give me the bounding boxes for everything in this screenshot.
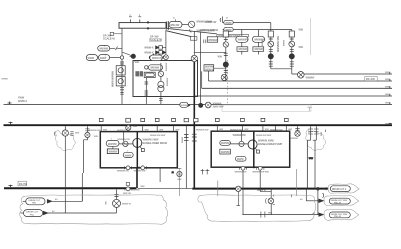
- breaker dot left: [131, 54, 135, 58]
- feeder line F2: [209, 80, 393, 82]
- PT drop x297: [297, 126, 299, 131]
- cloud outline bottom left: [20, 195, 168, 225]
- svg-text:WWWW-XW: WWWW-XW: [117, 130, 130, 132]
- drop D4 to box L: [155, 118, 159, 131]
- arrow feed 2b: [319, 199, 324, 202]
- cable riser x315: [314, 140, 316, 188]
- svg-text:WW: WW: [321, 131, 323, 136]
- breaker column C circle: [223, 42, 228, 47]
- cable termination left circle: [62, 130, 68, 136]
- svg-text:WW: WW: [385, 79, 389, 81]
- pothead A column: [310, 126, 312, 140]
- svg-text:WWWW XW WW: WWWW XW WW: [252, 171, 268, 173]
- H2 fuse rect above b: [126, 118, 131, 122]
- wire K1 drop: [193, 31, 195, 55]
- stadium label LB1: [86, 55, 97, 61]
- svg-text:WWWW-XW: WWWW-XW: [230, 129, 243, 131]
- motor ML aux square: [141, 149, 144, 152]
- svg-text:WWWW: WWWW: [132, 190, 140, 192]
- tick small x291: [291, 194, 293, 197]
- tick x122 y92: [120, 92, 123, 94]
- dark relay pair: [135, 71, 139, 76]
- feeder stub ticks: [177, 169, 181, 180]
- node H3 left tick: [9, 185, 13, 188]
- svg-text:DRUM CUT: DRUM CUT: [26, 212, 38, 214]
- box R top drop: [241, 131, 243, 141]
- feeder line F4: [194, 95, 392, 97]
- drop D3 to box L: [141, 118, 145, 131]
- svg-text:11: 11: [173, 18, 176, 20]
- arrow feed 2: [43, 211, 48, 214]
- svg-text:WWWW XW: WWWW XW: [134, 171, 146, 173]
- arrow box row 2: [159, 51, 163, 55]
- svg-text:WWW-XW: WWW-XW: [152, 58, 164, 60]
- transformer T2 winding 1: [158, 81, 164, 87]
- pothead tick right: [325, 130, 327, 133]
- svg-text:WWW: WWW: [100, 58, 107, 60]
- svg-text:WWW: WWW: [225, 23, 232, 25]
- arrow feed 3: [319, 213, 324, 216]
- drop D5 to box L: [172, 118, 176, 131]
- svg-text:WWW-XW WW: WWW-XW WW: [256, 135, 272, 137]
- motor thick drop L: [136, 132, 138, 168]
- svg-text:WWW: WWW: [182, 136, 184, 143]
- tick pair x146 b: [145, 91, 149, 95]
- dashed control line x227: [226, 60, 228, 104]
- below box L drop x160: [159, 168, 161, 182]
- bus H3 left: [4, 187, 136, 189]
- drum cut stadium 2: [24, 210, 43, 217]
- svg-text:DF-XW: DF-XW: [366, 77, 375, 81]
- wire drum line 2: [48, 212, 117, 214]
- svg-text:DRUM CUT: DRUM CUT: [29, 200, 41, 202]
- riser tie x84 top: [81, 188, 83, 201]
- H3 bus corner symbol: [126, 182, 129, 185]
- label DF-XW box right: [365, 76, 377, 80]
- node LB junction circle: [120, 56, 123, 59]
- cable riser x83: [82, 140, 83, 202]
- svg-text:WW: WW: [133, 126, 138, 128]
- contactor stack 2 stadium: [252, 36, 264, 42]
- bus H2 main: [4, 124, 393, 126]
- ground ticks: [115, 195, 119, 197]
- cable riser x307: [307, 140, 316, 188]
- tick pair x146 a: [145, 82, 149, 84]
- recloser tick: [273, 195, 275, 205]
- stadium label LA: [98, 46, 110, 51]
- busbar 4160V: [119, 23, 166, 29]
- svg-text:WW: WW: [299, 29, 304, 31]
- contactor stack 2 rect: [253, 47, 264, 52]
- svg-text:WWW: WWW: [225, 30, 232, 32]
- svg-text:WWWW: WWWW: [99, 49, 109, 51]
- svg-text:WWW XW: WWW XW: [205, 21, 217, 24]
- box L stadium label 1: [106, 140, 119, 146]
- wire F2 corner: [208, 71, 210, 81]
- pothead A crossbars: [308, 129, 313, 134]
- breaker column C ticks: [224, 40, 228, 56]
- cloud stub right2: [295, 169, 297, 196]
- svg-text:WWW-X: WWW-X: [18, 100, 28, 103]
- spare bracket: [307, 107, 312, 111]
- arrow label row 1: [156, 46, 159, 49]
- contactor stack 2 stub: [257, 30, 259, 37]
- svg-text:WWWW: WWWW: [108, 144, 118, 146]
- wire inner drop x146: [145, 78, 147, 105]
- meter M2 on F1: [298, 72, 305, 79]
- svg-text:WW: WW: [385, 94, 389, 96]
- aux jog to riser: [84, 138, 88, 140]
- label mid box: [150, 38, 162, 41]
- aux circle on xfmr drop: [158, 71, 163, 76]
- svg-text:WWW W: WWW W: [257, 190, 267, 192]
- svg-text:WWWW: WWWW: [166, 62, 168, 71]
- svg-text:WW-XW: WW-XW: [170, 24, 180, 27]
- K2 leader: [214, 67, 226, 69]
- feeder fuse rect: [194, 118, 198, 121]
- svg-text:RAISE/LOWER DRUM: RAISE/LOWER DRUM: [143, 142, 167, 145]
- stadium label LB2: [98, 55, 109, 61]
- recloser bracket: [265, 198, 268, 203]
- node F2 right tick: [389, 79, 391, 81]
- svg-text:DRUM CUT 2: DRUM CUT 2: [332, 189, 347, 191]
- svg-text:WW: WW: [244, 129, 248, 131]
- svg-text:WWW-XW WW: WWW-XW WW: [150, 135, 166, 137]
- busbar end cap: [167, 21, 169, 30]
- ground device wire low: [116, 207, 118, 213]
- below box R drop a long: [242, 170, 244, 215]
- node L1 start tick: [220, 17, 222, 23]
- svg-text:WWWW: WWWW: [254, 49, 264, 51]
- meter M1 circle: [188, 21, 194, 27]
- starter S2 circle: [118, 79, 123, 84]
- PT ticks x297: [295, 128, 299, 130]
- drop D8 to box R: [261, 118, 265, 131]
- starter cluster rect: [144, 72, 155, 77]
- busbar tick 1: [129, 17, 132, 23]
- pothead cloud right: [306, 130, 326, 151]
- bus H1 480V: [4, 103, 393, 105]
- svg-text:WWW: WWW: [88, 58, 95, 60]
- node H2 left tick: [9, 122, 13, 125]
- feeder line F3: [202, 87, 392, 89]
- cloud outline bottom right: [198, 195, 316, 222]
- upper box stadium on top edge: [150, 55, 163, 61]
- svg-text:WW: WW: [219, 129, 223, 131]
- bus H3 right: [192, 188, 328, 190]
- svg-text:WWWW-XW: WWWW-XW: [196, 129, 209, 131]
- svg-text:WW: WW: [299, 47, 304, 49]
- svg-text:WWWW-XW: WWWW-XW: [233, 135, 247, 137]
- svg-text:WW: WW: [159, 129, 163, 131]
- svg-text:XWW WW: XWW WW: [213, 107, 225, 109]
- drum cut 2 stadium top: [330, 186, 350, 192]
- svg-text:WWW-X: WWW-X: [144, 52, 154, 55]
- H2 aux breaker circle b: [126, 125, 131, 130]
- ground device x117 wire: [116, 190, 118, 200]
- wire row 1: [162, 47, 166, 49]
- riser x317: [317, 189, 319, 215]
- edge breaker Rb: [258, 166, 262, 170]
- svg-text:WWW: WWW: [237, 159, 244, 161]
- svg-text:WWW: WWW: [283, 39, 285, 46]
- drum cut stadium 1: [26, 198, 45, 205]
- contactor stack 1 rect: [237, 47, 248, 52]
- svg-text:WWWW: WWWW: [205, 67, 215, 69]
- upper unit box: [133, 61, 198, 97]
- stadium 2 left tick: [20, 212, 23, 214]
- wire drum line 3: [242, 214, 318, 216]
- node H1 right tick: [389, 102, 391, 104]
- future vertical faint: [310, 18, 312, 55]
- riser x306: [305, 189, 307, 201]
- breaker column C drop: [225, 37, 227, 81]
- svg-text:PNL-W: PNL-W: [334, 216, 342, 218]
- svg-text:WW: WW: [265, 129, 269, 131]
- tick pair below bar: [204, 40, 206, 44]
- aux drop x87: [86, 126, 88, 132]
- stadium U2 inside: [148, 65, 162, 70]
- svg-text:WW: WW: [135, 62, 140, 64]
- line L2 4160 feeder: [223, 29, 292, 31]
- svg-text:WW XW: WW XW: [123, 193, 131, 195]
- svg-text:WW: WW: [288, 129, 292, 131]
- aux crossbars x87: [85, 129, 89, 131]
- tie line y52: [194, 51, 226, 53]
- pilot circle U2: [145, 66, 148, 69]
- pothead B crossbars: [314, 129, 319, 134]
- transformer T1 stadium label: [169, 21, 182, 27]
- faint spare rect: [222, 105, 311, 111]
- H1 stadium label: [180, 102, 188, 107]
- wire LA lead: [110, 47, 122, 51]
- pothead B column: [315, 126, 317, 140]
- breaker column C ticks low: [224, 71, 228, 73]
- breaker column B cubicle: [289, 31, 294, 37]
- unit box R switchgear: [211, 131, 290, 167]
- stadium cap dot: [149, 56, 152, 59]
- svg-text:11: 11: [226, 17, 229, 19]
- motor MR circle: [248, 140, 257, 149]
- drum cut row2 stadium: [329, 198, 350, 204]
- aux device x87 circle: [85, 132, 90, 137]
- drop side label: [110, 32, 113, 35]
- wire T2 bottom: [160, 92, 162, 105]
- slope feeder A: [167, 28, 217, 34]
- svg-text:WW: WW: [385, 123, 389, 125]
- svg-text:WWWWW: WWWWW: [254, 39, 266, 41]
- svg-text:WWWW XW: WWWW XW: [235, 171, 247, 173]
- cloud drum cut 2: [328, 184, 359, 193]
- box R stadium label 2: [236, 156, 247, 161]
- drop D1 to box L: [99, 118, 103, 131]
- starter S2 rect: [116, 77, 125, 86]
- feeder label bar: [217, 34, 249, 37]
- drop D9 to box R: [275, 126, 277, 131]
- H3 left label box: [18, 181, 27, 186]
- relay label box K2: [204, 65, 214, 71]
- svg-text:WWWWW: WWWWW: [238, 39, 250, 41]
- box L pilot circle: [123, 141, 128, 146]
- aux ticks between feeders: [201, 169, 210, 174]
- unit box L switchgear: [100, 132, 177, 168]
- tick pair below S2: [120, 88, 124, 90]
- wire LB lead: [110, 57, 121, 59]
- below box R drop b: [259, 170, 261, 191]
- transformer T2 winding 2: [158, 86, 164, 92]
- svg-text:WWWW: WWWW: [306, 77, 316, 79]
- svg-text:WWWW: WWWW: [208, 39, 218, 42]
- svg-text:WWW W: WWW W: [122, 203, 132, 205]
- drop D7 to box R: [241, 118, 245, 131]
- svg-text:WWWW-XW: WWWW-XW: [117, 139, 130, 141]
- edge breaker La: [126, 166, 130, 170]
- breaker column B ticks low: [290, 62, 294, 66]
- wire T1 to meter: [182, 23, 188, 25]
- wire H3 link: [138, 188, 192, 190]
- ground device circle: [113, 199, 121, 207]
- breaker column C closed dot: [223, 62, 228, 67]
- motor MR aux square: [257, 150, 260, 153]
- H1 junction dot: [199, 103, 203, 107]
- feeder line F1: [292, 73, 392, 75]
- node H2 right tick: [389, 123, 392, 125]
- svg-text:DF-XW: DF-XW: [19, 183, 28, 186]
- contactor stack 1 stub: [241, 30, 243, 37]
- drop D6 to box R: [215, 118, 219, 131]
- line 3 tick pair: [261, 212, 265, 218]
- svg-text:WWWW: WWWW: [221, 152, 231, 154]
- wire dot stub: [122, 52, 132, 56]
- stub below breaker: [237, 192, 241, 206]
- svg-text:11: 11: [172, 172, 175, 174]
- fuse marks on x194: [192, 134, 197, 141]
- svg-text:WW: WW: [218, 57, 223, 59]
- breaker column A ticks low: [269, 62, 273, 66]
- termination left bracket: [54, 131, 57, 136]
- PT circle x297: [295, 131, 300, 136]
- breaker column A cubicle: [268, 31, 273, 37]
- arrow feed 1: [47, 200, 52, 203]
- H1 meter circle: [205, 102, 211, 108]
- busbar tick 2: [138, 17, 141, 23]
- svg-text:WW: WW: [141, 186, 145, 188]
- label box KA: [190, 37, 197, 41]
- breaker column B drop: [291, 30, 293, 75]
- breaker column A drop: [270, 23, 272, 69]
- cloud stub right: [217, 181, 219, 197]
- cloud drum row2: [324, 195, 359, 205]
- line L1 4160 feeder: [223, 22, 271, 24]
- wire column tie: [271, 68, 292, 70]
- wire F3 corner: [201, 71, 203, 88]
- svg-text:WWWW: WWWW: [109, 152, 119, 154]
- riser x317 dot: [316, 187, 319, 190]
- feeder label box K1: [207, 37, 217, 42]
- recloser lead: [260, 191, 271, 193]
- box L stadium label 2: [123, 152, 133, 157]
- tick pair T2: [159, 98, 163, 100]
- wire busbar right stub: [165, 30, 167, 55]
- svg-text:40: 40: [300, 199, 303, 201]
- svg-text:40: 40: [55, 199, 58, 201]
- recloser drop x271: [270, 189, 272, 215]
- svg-text:WWWW: WWWW: [221, 143, 231, 145]
- svg-text:WW: WW: [175, 129, 179, 131]
- edge breaker Lb: [141, 166, 145, 170]
- svg-text:WW: WW: [385, 103, 389, 105]
- motor thick drop R: [253, 131, 255, 168]
- breaker B2 circle-X on F2: [221, 74, 227, 80]
- tie breaker drop x186: [185, 126, 187, 189]
- arrow box row 1: [159, 46, 163, 50]
- box R stadium label 1: [220, 141, 231, 146]
- svg-text:WWW: WWW: [181, 105, 188, 107]
- wire drum line 1: [52, 200, 82, 202]
- breaker B1 circle-X: [191, 55, 197, 61]
- svg-text:WW: WW: [309, 158, 314, 160]
- svg-text:WWWW: WWWW: [238, 49, 248, 51]
- box R pilot circle: [239, 141, 244, 146]
- contactor stack 1 wire: [241, 42, 243, 54]
- drop D10 to box R: [284, 118, 288, 131]
- stadium label L2: [224, 27, 233, 31]
- busbar junction dots: [147, 21, 149, 23]
- stadium label L1: [224, 20, 233, 24]
- wire left feeder drop: [121, 28, 123, 104]
- svg-text:WW: WW: [145, 129, 149, 131]
- pothead cloud left: [55, 130, 75, 151]
- svg-text:WWWW XW: WWWW XW: [117, 171, 129, 173]
- cloud stub left: [178, 169, 180, 197]
- svg-text:WWW: WWW: [262, 39, 264, 46]
- box L wire to motor: [119, 143, 133, 145]
- svg-text:XW: XW: [105, 200, 107, 204]
- svg-text:WW: WW: [385, 72, 389, 74]
- svg-text:WWW: WWW: [125, 155, 132, 157]
- termination left stub: [64, 126, 66, 130]
- breaker on H3: [236, 186, 241, 191]
- svg-text:WWWW: WWWW: [150, 67, 160, 69]
- svg-text:WW: WW: [103, 129, 107, 131]
- svg-text:WWWW-XW: WWWW-XW: [88, 130, 101, 132]
- node F1 right tick: [389, 72, 391, 74]
- svg-text:WW: WW: [94, 136, 99, 138]
- svg-text:RAISE/LOWER PUMP: RAISE/LOWER PUMP: [258, 143, 283, 146]
- svg-text:PNL-W: PNL-W: [334, 202, 342, 204]
- starter cluster stadium: [145, 73, 154, 77]
- device circle on stub: [164, 55, 169, 60]
- thick feeder drop x194: [193, 62, 195, 189]
- hook mark: [323, 193, 324, 197]
- contactor stack 1 stadium: [236, 36, 248, 42]
- svg-text:WWWW XWWW: WWWW XWWW: [200, 29, 219, 32]
- svg-text:WWWW: WWWW: [213, 104, 223, 106]
- breaker column A closed dot: [268, 54, 273, 59]
- drum cut row3 stadium: [329, 212, 350, 218]
- svg-text:WW: WW: [385, 87, 389, 89]
- feeder stub device circle: [177, 171, 182, 176]
- breaker column C cubicle: [223, 31, 228, 37]
- recloser circle: [268, 198, 274, 204]
- cloud drum row3: [324, 209, 359, 220]
- contactor stack 2 wire: [257, 42, 259, 54]
- starter S1 circle: [118, 68, 123, 73]
- motor ML circle: [133, 138, 142, 147]
- starter S1 rect: [116, 66, 125, 75]
- svg-text:WWWW: WWWW: [167, 77, 169, 86]
- cable riser x65: [64, 136, 66, 213]
